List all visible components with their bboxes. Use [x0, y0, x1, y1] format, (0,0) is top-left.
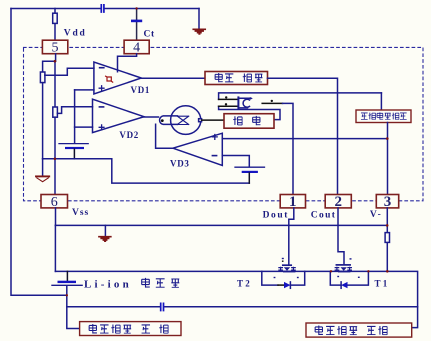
- wire: top Vdd rail: [11, 8, 199, 10]
- oscillator inner lines + X: [177, 116, 188, 124]
- wire: left outer wire (battery + feedback): [11, 9, 67, 296]
- pin 5 box: [42, 40, 67, 54]
- svg-text:3: 3: [384, 194, 392, 210]
- svg-text:6: 6: [51, 195, 58, 210]
- pin 3 box: [376, 195, 398, 208]
- pack + box text 电池组件 正 极: [89, 324, 97, 334]
- svg-text:V-: V-: [370, 210, 383, 220]
- T2 body diode loop: [262, 271, 305, 285]
- wire: Ct branch: [136, 9, 138, 41]
- svg-text:Ct: Ct: [144, 30, 155, 40]
- MOSFET T1: [335, 265, 351, 273]
- wire: detect box to pin3 line: [387, 123, 389, 195]
- oscillator junction dot: [161, 119, 164, 122]
- Li-ion 电池芯: [142, 278, 150, 288]
- oscillator output square: [199, 119, 202, 122]
- svg-text:1: 1: [289, 194, 297, 210]
- delay text 延 时: [233, 116, 242, 125]
- svg-text:VD3: VD3: [170, 159, 190, 169]
- pack+ rail with capacitor C2: [67, 306, 418, 308]
- wire: reference ladder vertical: [74, 90, 76, 143]
- level shift text 电平 转换: [215, 73, 223, 82]
- wire: main vertical pin5->R2: [54, 61, 56, 107]
- svg-text:Vss: Vss: [72, 208, 89, 218]
- VD1 minus: [100, 67, 104, 69]
- wire: R2 down to pin 6: [54, 117, 56, 194]
- ground (top right): [198, 9, 200, 29]
- wire: VD2 - input from R2: [57, 107, 92, 114]
- svg-text:Vdd: Vdd: [64, 29, 87, 39]
- short-circuit detect box: [356, 110, 411, 123]
- Vss pack rail: [55, 224, 387, 226]
- latch input wires (black): [219, 99, 238, 106]
- tiny pin-number marks near MOSFETs: [274, 258, 360, 278]
- ground symbol top-right (stepped, dark red): [193, 29, 205, 34]
- wire: battery to rail: [248, 173, 250, 183]
- pin 6 box: [41, 195, 68, 208]
- pin 2 box: [325, 195, 351, 208]
- wire: VD2 + input: [75, 126, 93, 128]
- T1 body diode loop: [330, 271, 368, 285]
- reference battery (VD2) thick plate: [65, 147, 84, 149]
- ground symbol bottom (stepped): [99, 237, 111, 242]
- wire: pin4 to VD1 top: [118, 54, 137, 72]
- wire: latch output (black): [262, 102, 282, 104]
- pack - box text 电池组件 负极: [315, 326, 323, 336]
- op-amp VD1: [94, 62, 141, 94]
- wire: VD1 + input: [75, 89, 94, 91]
- svg-text:2: 2: [334, 194, 342, 210]
- CJK-like glyphs: [89, 73, 406, 335]
- MOSFET T2: [279, 265, 296, 272]
- oscillator circle: [171, 106, 201, 135]
- wire: gnd stub bottom: [104, 225, 106, 236]
- latch output dot: [271, 100, 273, 102]
- wire: Dout to T2 gate: [289, 208, 294, 265]
- IC dashed boundary box: [24, 47, 424, 200]
- wire: latch top to short-detect box: [380, 93, 382, 110]
- svg-text:Li-ion: Li-ion: [84, 279, 132, 291]
- wire: to pin 1 Dout: [283, 103, 294, 194]
- latch input dots: [225, 96, 227, 98]
- resistor R0: [53, 13, 58, 23]
- battery pack - terminal box: [306, 323, 412, 337]
- VD3 minus: [212, 155, 216, 157]
- pin 4 box: [124, 40, 149, 54]
- reference battery (VD3) thick plate: [242, 171, 258, 173]
- VD3 plus: [212, 135, 217, 140]
- svg-text:5: 5: [52, 41, 59, 56]
- svg-text:VD2: VD2: [119, 130, 139, 140]
- wire: VD3 output loop to oscillator: [156, 124, 173, 148]
- short detect text: [361, 113, 368, 119]
- resistor R2: [53, 107, 58, 117]
- op-amp VD3 (points left): [173, 133, 222, 165]
- delay box: [224, 114, 274, 129]
- svg-text:VD1: VD1: [131, 85, 151, 95]
- Li-ion battery cell: [66, 271, 68, 280]
- wire: left vertical to B- rail: [54, 225, 56, 271]
- wire: osc output to delay box (black): [202, 119, 224, 121]
- capacitor C1 on top rail: [101, 5, 104, 12]
- wire: level-shift out to Cout line: [268, 78, 338, 194]
- resistor R1: [40, 72, 45, 83]
- svg-text:Cout: Cout: [311, 210, 337, 220]
- wire: R1 down to Vss rail: [42, 83, 44, 159]
- T1 diode: [341, 282, 347, 288]
- wire: pin5 bottom branch: [43, 54, 56, 72]
- junction dots (dark red): [54, 7, 389, 296]
- VD2 minus: [99, 106, 103, 108]
- wire: VD1 output: [141, 77, 205, 79]
- wire: VD2 output to oscillator: [144, 116, 159, 118]
- svg-text:4: 4: [133, 41, 140, 56]
- battery pack + terminal box: [80, 322, 181, 336]
- latch gate glyph: [237, 97, 239, 108]
- latch rectangle wires: [219, 93, 382, 120]
- svg-text:Dout: Dout: [263, 210, 289, 220]
- VD2 plus: [99, 125, 104, 130]
- svg-text:T2: T2: [237, 278, 252, 288]
- capacitor C2: [161, 303, 164, 310]
- VD1 plus: [99, 86, 104, 91]
- oscillator stadium: [160, 116, 178, 125]
- resistor R3: [385, 233, 389, 243]
- svg-text:T1: T1: [375, 279, 390, 289]
- wire: Cout to T1 gate: [338, 208, 344, 264]
- pin 1 box: [280, 195, 305, 208]
- T2 diode: [284, 282, 290, 288]
- wire: VD1 - input: [45, 68, 94, 75]
- resistor R0 wire (to pin 5): [54, 9, 56, 41]
- wire: gnd stub left: [42, 159, 44, 176]
- reference battery (VD3) thin plate: [235, 166, 265, 168]
- wire: battery stub to Vss rail: [73, 149, 75, 159]
- ground symbol (open V, dark red): [36, 176, 49, 181]
- wire: VD3 - to reference battery: [222, 156, 249, 167]
- op-amp VD2: [93, 99, 145, 132]
- capacitor Ct plate: [131, 20, 142, 23]
- wire: pin6 to Vss pack rail: [55, 208, 57, 226]
- wire: VD3 + sense wire to V- line: [222, 138, 387, 140]
- VD1 red hysteresis glyph: [106, 76, 113, 82]
- B- power rail through MOSFETs: [55, 271, 417, 327]
- wire: V- down through R3: [386, 208, 388, 271]
- reference battery (VD2) thin plate: [59, 143, 88, 145]
- Vss internal rail: [43, 159, 250, 183]
- level-shift box: [205, 72, 268, 85]
